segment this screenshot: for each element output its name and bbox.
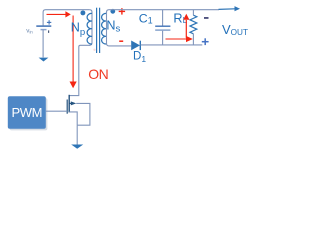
svg-text:PWM: PWM <box>12 105 43 120</box>
wire: PWM output to gate <box>46 110 67 112</box>
capacitor C1 bottom stem <box>162 31 164 45</box>
voltage source V_in: long plate <box>36 25 51 27</box>
svg-text:Ns: Ns <box>106 18 120 34</box>
output minus sign (navy) <box>204 17 209 19</box>
MOSFET Q1 gate bar <box>66 100 68 114</box>
primary polarity dot <box>80 10 85 15</box>
diode D1 triangle <box>131 41 140 51</box>
wire: battery top stem and top rail to primary <box>43 10 89 26</box>
transformer primary winding Np arcs <box>87 13 92 44</box>
capacitor C1 top plate <box>155 25 170 27</box>
faint red artifact dot <box>93 49 95 51</box>
MOSFET source lead <box>69 112 77 125</box>
svg-text:vin: vin <box>26 28 33 35</box>
svg-text:ON: ON <box>88 66 108 82</box>
red arrow: primary current (horizontal) <box>47 11 71 17</box>
voltage source V_in: short plate <box>41 29 47 31</box>
secondary polarity dot <box>110 9 115 14</box>
VOUT arrow (dark end of rail) <box>219 6 241 11</box>
voltage source plus sign <box>47 20 51 24</box>
red arrow: primary current (vertical, down to MOSFET) <box>70 16 77 89</box>
transformer primary winding Np straight side <box>89 10 92 46</box>
secondary plus mark (red) <box>119 8 125 14</box>
wire: primary bottom to MOSFET drain <box>69 45 90 95</box>
diode D1 cathode bar <box>139 41 141 50</box>
wire: top output rail <box>107 10 220 13</box>
MOSFET Q1 body arrow <box>69 101 76 105</box>
red arrow: load current up through RL <box>183 14 189 38</box>
wire: body tie loop to source <box>76 103 90 125</box>
transformer core bars <box>97 8 100 53</box>
wire: battery bottom stem <box>42 30 44 58</box>
wire: source to ground <box>76 125 78 145</box>
resistor RL top stem <box>192 10 194 16</box>
resistor RL bottom stem <box>192 34 194 45</box>
capacitor C1 bottom plate <box>155 29 170 31</box>
svg-text:VOUT: VOUT <box>222 22 248 37</box>
capacitor C1 top stem <box>162 10 164 26</box>
voltage source minus tick <box>48 30 49 33</box>
svg-text:D1: D1 <box>133 51 146 64</box>
resistor RL zigzag <box>190 15 197 34</box>
svg-text:C1: C1 <box>139 11 153 25</box>
transformer secondary winding Ns straight side <box>106 12 108 44</box>
PWM block shadow <box>10 98 48 130</box>
MOSFET Q1 channel bar <box>68 95 70 113</box>
PWM block <box>8 96 46 129</box>
red arrow: output loop current (horizontal right) <box>166 36 193 42</box>
ground arrow under MOSFET <box>71 145 83 149</box>
output plus sign (blue) <box>202 38 209 45</box>
transformer secondary winding Ns arcs <box>102 13 107 44</box>
wire: secondary bottom to diode anode <box>107 43 132 46</box>
ground arrow under battery <box>39 58 49 62</box>
wire: bottom rail from diode to right end <box>141 44 203 46</box>
secondary minus mark (red) <box>119 40 123 42</box>
